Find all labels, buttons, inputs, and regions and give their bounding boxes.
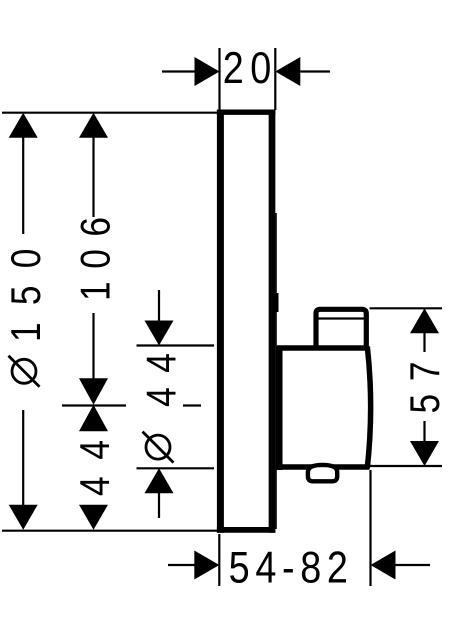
arrowhead 54-82 left	[194, 551, 219, 580]
extension line 57 bottom	[370, 465, 443, 467]
extension line D44 top	[137, 344, 215, 346]
arrowhead 57 bottom	[410, 441, 439, 466]
faceplate top edge	[217, 110, 276, 115]
arrowhead D44 down	[145, 321, 174, 346]
arrowhead 54-82 right	[371, 551, 396, 580]
arrowhead 20 left	[195, 57, 220, 86]
faceplate right edge	[269, 110, 276, 533]
extension line 54-82 right vertical	[369, 470, 371, 586]
center line dash near plate	[183, 404, 201, 406]
safety stop tab under handle	[308, 465, 337, 481]
faceplate (side view)	[217, 110, 276, 533]
dimension line 20 left segment	[162, 70, 195, 72]
dimension line 57 upper segment	[423, 332, 425, 352]
dimension line D150 lower segment	[22, 410, 24, 506]
handle base bottom edge	[277, 464, 370, 470]
dimension line 57 lower segment	[423, 421, 425, 442]
knob (select button)	[316, 309, 366, 350]
label D150 diameter symbol	[9, 356, 40, 387]
dimension line 106 upper segment	[92, 137, 94, 217]
handle base top edge	[277, 345, 367, 351]
arrowhead 57 top	[410, 308, 439, 333]
label D44 diameter symbol	[143, 432, 174, 463]
arrowhead D44 up	[145, 468, 174, 493]
arrowhead 106 top	[79, 113, 108, 138]
arrowhead D150 top	[9, 113, 38, 138]
handle base left band	[276, 346, 283, 470]
dimension line 106 lower segment	[92, 313, 94, 381]
arrowhead 20 right	[275, 57, 300, 86]
svg-text:54-82: 54-82	[229, 543, 348, 593]
extension line 20-dim left vertical	[218, 48, 220, 110]
extension line 54-82 left vertical	[218, 534, 220, 586]
dimension line D150 upper segment	[22, 137, 24, 234]
dimension line D44 upper stub	[158, 290, 160, 322]
center line segment left of handle	[62, 404, 126, 406]
faceplate left edge	[217, 110, 224, 533]
extension line D44 bottom	[137, 467, 215, 469]
svg-text:106: 106	[73, 217, 119, 301]
dimension line D44 lower stub	[158, 492, 160, 518]
dimension line 54-82 left segment	[168, 564, 196, 566]
arrowhead 44 bottom	[79, 505, 108, 530]
extension line top-left horizontal (plate top)	[2, 112, 217, 114]
arrowhead 44 top (bowtie lower)	[79, 405, 108, 432]
extension line bottom-left horizontal (plate bottom)	[2, 530, 217, 532]
knob seam line	[319, 317, 365, 319]
dimension line 54-82 right segment	[395, 564, 431, 566]
extension line 57 top	[370, 307, 443, 309]
arrowhead 106 bottom (bowtie upper)	[79, 378, 108, 405]
extension line 20-dim right vertical	[274, 48, 276, 110]
dimension line 20 right segment	[300, 70, 330, 72]
faceplate right edge collar notch	[275, 293, 279, 312]
arrowhead D150 bottom	[9, 505, 38, 530]
faceplate bottom edge	[217, 527, 276, 533]
faceplate right edge lower step	[275, 213, 277, 529]
handle base right edge (curved)	[367, 347, 370, 469]
svg-text:150: 150	[3, 249, 49, 342]
